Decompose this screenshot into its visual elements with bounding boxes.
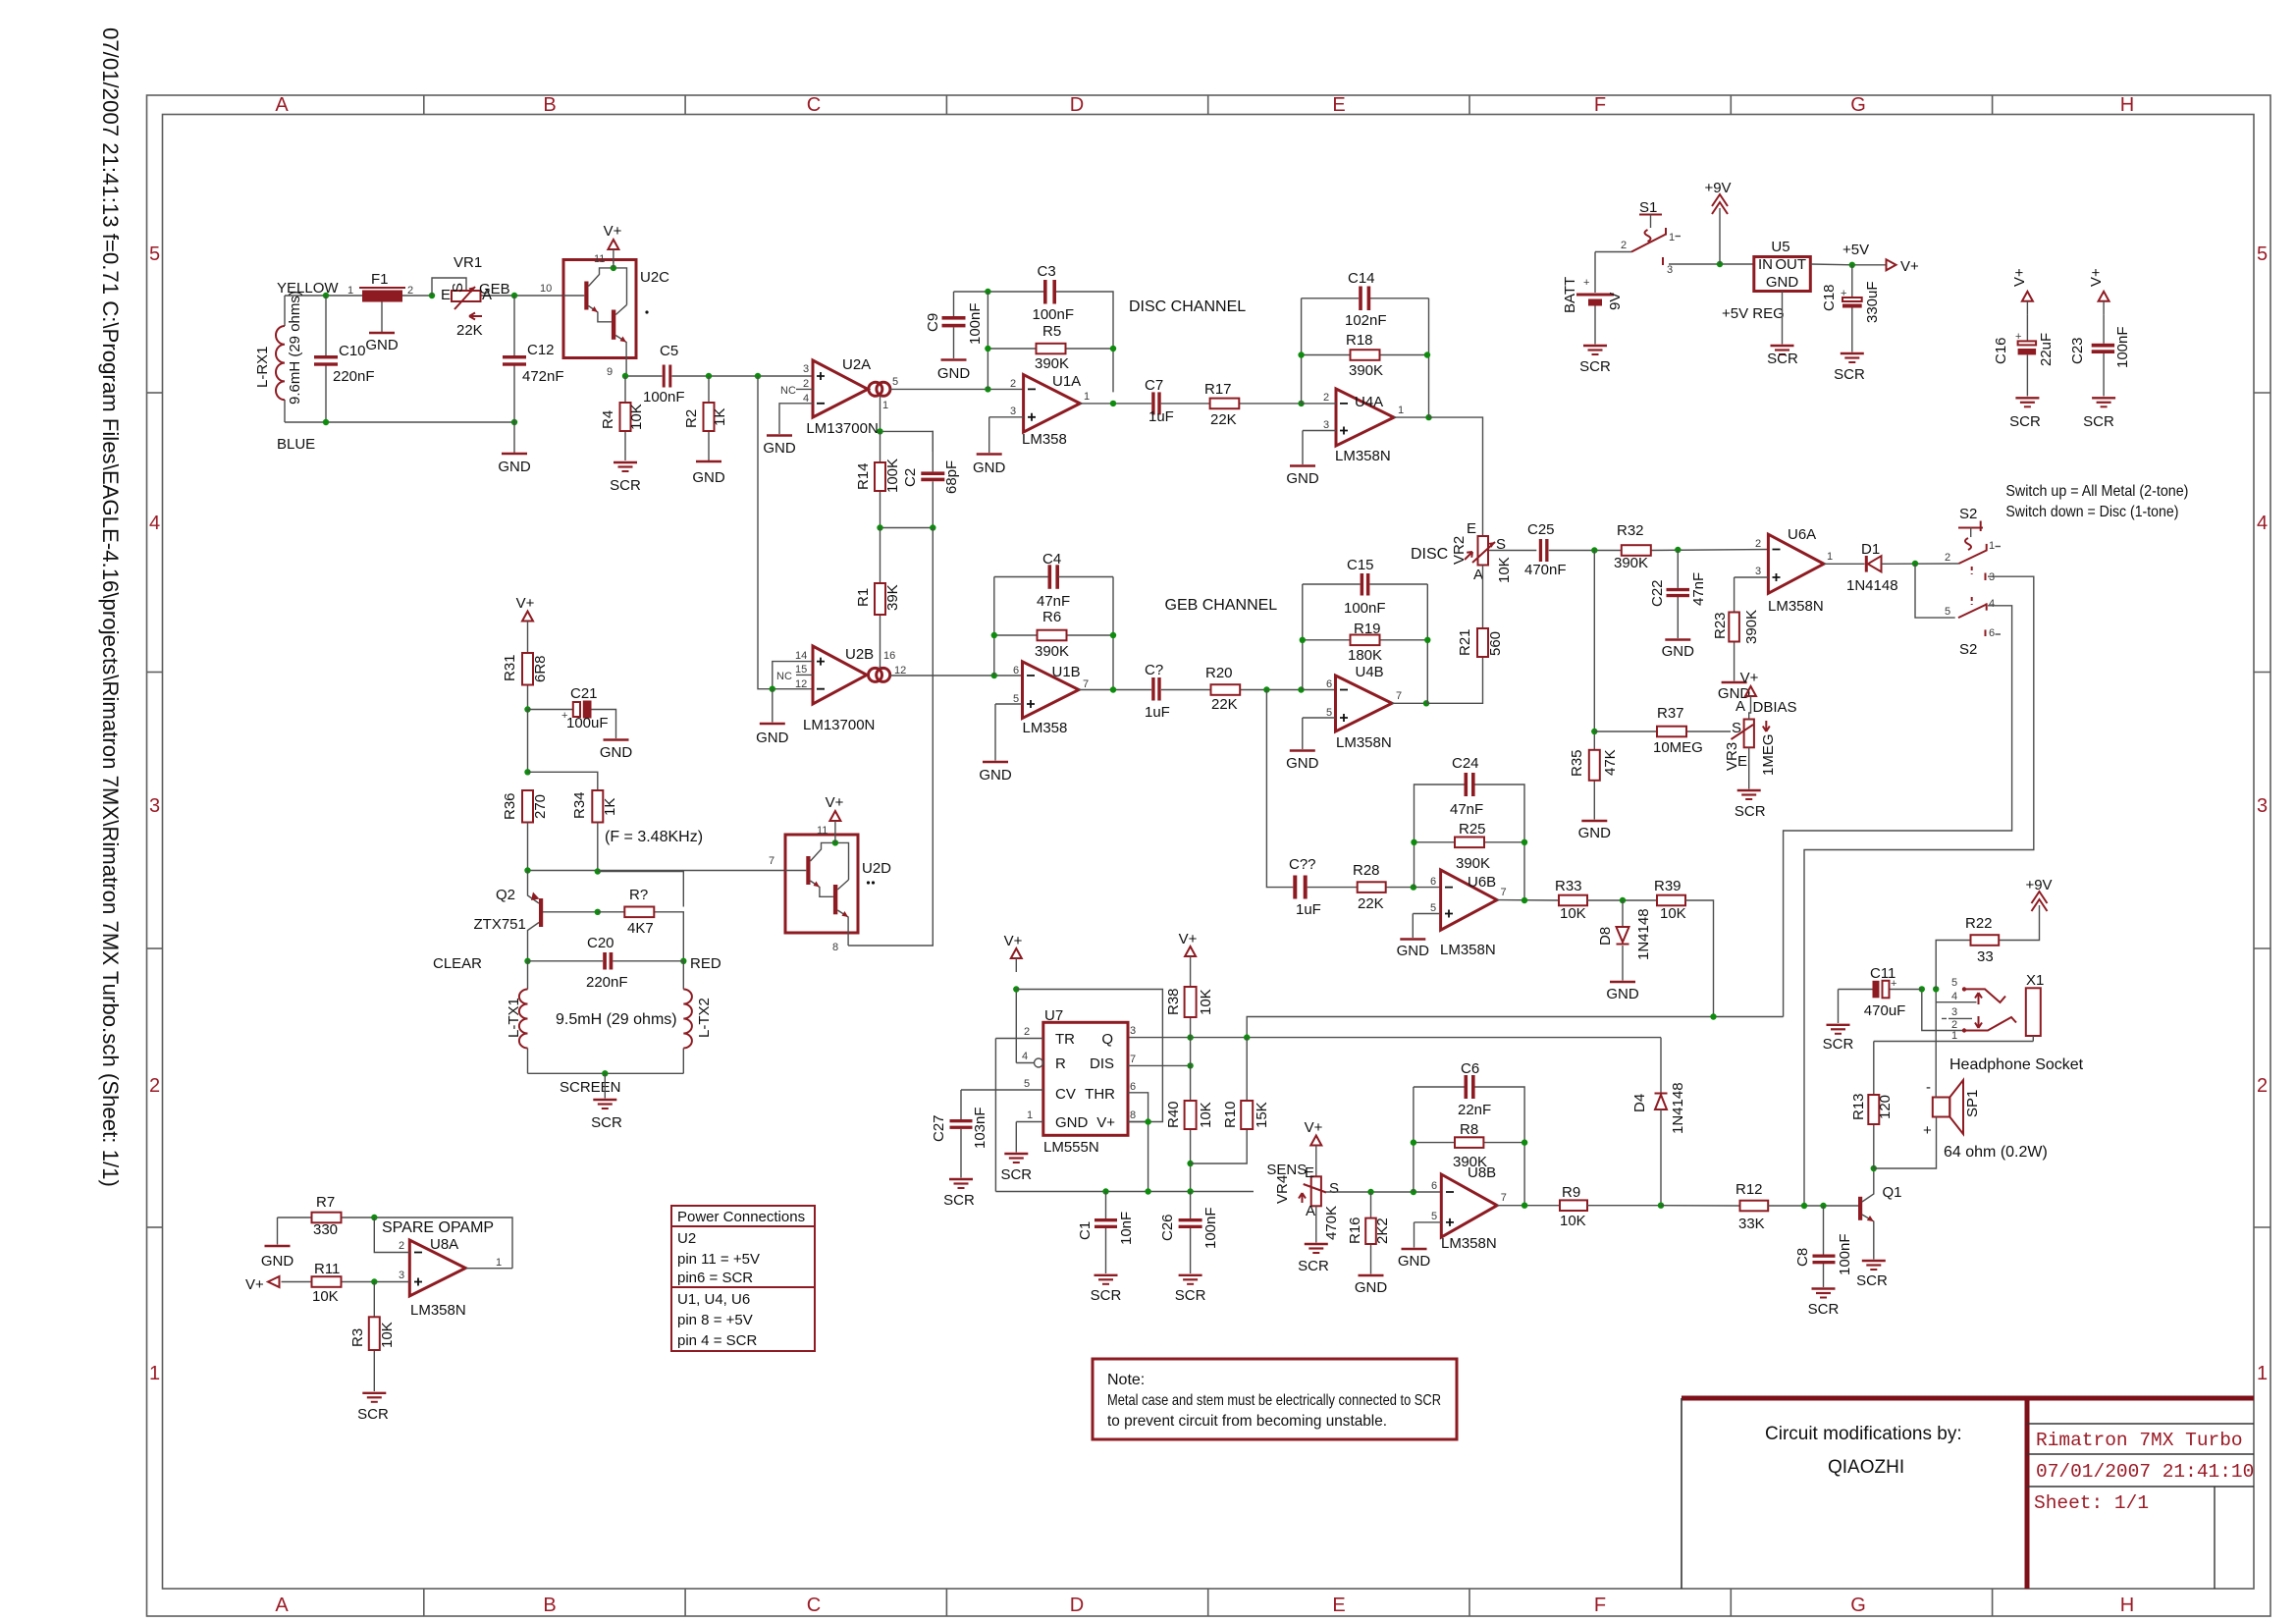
- svg-text:C18: C18: [1821, 284, 1838, 311]
- svg-text:2: 2: [1010, 378, 1016, 390]
- junction U4A out: [1425, 414, 1431, 420]
- pin 5 U7: [961, 1078, 1043, 1119]
- svg-text:R37: R37: [1657, 705, 1684, 722]
- svg-text:1: 1: [1027, 1109, 1033, 1121]
- diode D1: [1846, 541, 1898, 594]
- ground SCR under C23: [2083, 398, 2115, 430]
- regulator U5: [1754, 239, 1811, 292]
- svg-text:1: 1: [1989, 540, 1995, 552]
- svg-text:SCR: SCR: [1298, 1258, 1329, 1274]
- svg-text:Rimatron 7MX Turbo: Rimatron 7MX Turbo: [2036, 1430, 2243, 1451]
- svg-text:1N4148: 1N4148: [1670, 1082, 1686, 1134]
- svg-text:F: F: [1594, 1595, 1606, 1616]
- transistor pair U2C: [563, 260, 669, 358]
- svg-text:2: 2: [1621, 240, 1627, 251]
- capacitor C8: [1794, 1206, 1853, 1287]
- pin 1 X1: [1874, 1030, 2034, 1042]
- junction U1B out: [1110, 686, 1116, 692]
- svg-text:V+: V+: [1900, 258, 1919, 275]
- svg-text:1: 1: [347, 285, 353, 297]
- wire R14-C2 link: [881, 527, 934, 529]
- svg-text:100nF: 100nF: [1202, 1207, 1219, 1249]
- svg-text:1uF: 1uF: [1148, 408, 1174, 425]
- svg-text:A: A: [275, 1595, 289, 1616]
- capacitor C24: [1450, 755, 1483, 818]
- svg-text:9.5mH (29 ohms): 9.5mH (29 ohms): [556, 1011, 677, 1028]
- junction U2B pin14 gnd: [770, 686, 775, 692]
- op-amp U2B (OTA): [803, 646, 890, 733]
- svg-text:LM555N: LM555N: [1043, 1139, 1099, 1156]
- svg-text:GEB: GEB: [479, 281, 510, 298]
- power V+ at U2D pin 11: [817, 794, 844, 837]
- svg-text:10K: 10K: [1198, 989, 1214, 1015]
- wire YELLOW net: [285, 296, 563, 422]
- svg-text:22K: 22K: [1211, 696, 1238, 713]
- svg-text:LM13700N: LM13700N: [806, 420, 878, 437]
- svg-text:SCR: SCR: [1823, 1036, 1854, 1053]
- svg-text:U6B: U6B: [1468, 874, 1496, 891]
- ground GND under D8: [1606, 982, 1639, 1002]
- inductor L-RX1: [254, 291, 303, 405]
- svg-text:LM358N: LM358N: [1336, 734, 1392, 751]
- svg-text:1: 1: [882, 400, 888, 411]
- capacitor C25: [1524, 521, 1567, 578]
- svg-text:4: 4: [1951, 991, 1957, 1002]
- svg-text:BATT: BATT: [1562, 277, 1578, 313]
- svg-text:22uF: 22uF: [2038, 333, 2055, 366]
- svg-text:Power Connections: Power Connections: [677, 1209, 805, 1225]
- svg-text:+9V: +9V: [1704, 180, 1731, 196]
- svg-text:1N4148: 1N4148: [1635, 908, 1652, 960]
- capacitor C7: [1145, 377, 1174, 425]
- svg-text:SCR: SCR: [1856, 1272, 1888, 1289]
- svg-text:1: 1: [1084, 391, 1090, 403]
- svg-text:22K: 22K: [1358, 895, 1384, 912]
- svg-text:V+: V+: [516, 595, 535, 612]
- svg-text:R28: R28: [1353, 862, 1380, 879]
- svg-text:U2D: U2D: [862, 860, 891, 877]
- junction R5 left: [985, 346, 990, 352]
- svg-text:GND: GND: [1578, 825, 1612, 841]
- wire SP1 bottom: [1874, 1117, 1937, 1169]
- ground SCR under C1: [1091, 1275, 1122, 1304]
- svg-text:47nF: 47nF: [1690, 572, 1707, 606]
- junction R32-C22: [1675, 547, 1681, 553]
- svg-text:100nF: 100nF: [967, 302, 984, 345]
- svg-text:C22: C22: [1649, 579, 1666, 607]
- svg-text:22K: 22K: [1210, 411, 1237, 428]
- svg-text:GND: GND: [937, 365, 971, 382]
- svg-text:LM13700N: LM13700N: [803, 717, 875, 733]
- svg-text:R18: R18: [1346, 332, 1373, 349]
- op-amp U1B: [1023, 662, 1081, 736]
- svg-text:1: 1: [1951, 1030, 1957, 1042]
- junction R25 left: [1411, 839, 1416, 845]
- resistor R8: [1414, 1121, 1524, 1170]
- capacitor C11: [1839, 965, 1922, 1023]
- svg-text:07/01/2007 21:41:10: 07/01/2007 21:41:10: [2036, 1461, 2254, 1483]
- wire C6 loop: [1414, 1087, 1524, 1206]
- svg-text:4: 4: [2257, 513, 2268, 534]
- capacitor C20: [528, 935, 684, 991]
- svg-text:SPARE OPAMP: SPARE OPAMP: [382, 1219, 494, 1236]
- junction U8B pin6: [1411, 1189, 1416, 1195]
- wire SP1 top: [1935, 989, 1937, 1097]
- pin 9 U2C: [607, 358, 626, 379]
- svg-text:6: 6: [1430, 876, 1436, 888]
- svg-text:R11: R11: [314, 1261, 340, 1277]
- svg-text:GND: GND: [1355, 1279, 1388, 1296]
- ground GND under C21: [600, 740, 633, 762]
- svg-text:LM358: LM358: [1023, 720, 1068, 736]
- ground SCR under C11: [1823, 1025, 1854, 1053]
- svg-text:VR2: VR2: [1451, 536, 1468, 565]
- svg-text:LM358N: LM358N: [410, 1302, 466, 1319]
- svg-text:Note:: Note:: [1107, 1372, 1145, 1388]
- svg-text:1K: 1K: [602, 798, 618, 816]
- svg-text:4: 4: [803, 393, 809, 405]
- resistor R12: [1735, 1181, 1858, 1232]
- svg-text:7: 7: [1083, 678, 1089, 690]
- svg-text:R4: R4: [600, 410, 616, 429]
- svg-text:R7: R7: [316, 1194, 335, 1211]
- ground GND under R35: [1578, 821, 1612, 841]
- inductor L-TX2: [683, 961, 713, 1074]
- svg-text:R6: R6: [1042, 609, 1061, 625]
- svg-text:8: 8: [1130, 1109, 1136, 1121]
- headphone socket X1: [2026, 972, 2045, 1042]
- switch S2 upper half: [1945, 506, 2001, 605]
- junction Q1 collector: [1871, 1165, 1877, 1171]
- svg-text:GND: GND: [979, 767, 1012, 784]
- svg-text:7: 7: [769, 855, 774, 867]
- svg-text:V+: V+: [1096, 1114, 1115, 1131]
- svg-text:68pF: 68pF: [943, 460, 960, 494]
- svg-text:L-TX1: L-TX1: [506, 998, 522, 1038]
- svg-text:E: E: [1467, 520, 1476, 537]
- svg-text:330uF: 330uF: [1864, 281, 1881, 323]
- svg-text:Q: Q: [1101, 1031, 1113, 1048]
- resistor R7: [278, 1194, 513, 1269]
- junction VR1-E: [429, 293, 435, 298]
- switch S1: [1595, 199, 1681, 276]
- ground GND at U6B pin5: [1397, 940, 1430, 960]
- svg-text:C?: C?: [1145, 662, 1163, 678]
- svg-text:2: 2: [803, 378, 809, 390]
- svg-text:C7: C7: [1145, 377, 1163, 394]
- pin 2 U7: [995, 1026, 1042, 1192]
- svg-text:GEB CHANNEL: GEB CHANNEL: [1165, 597, 1278, 614]
- svg-text:390K: 390K: [1614, 555, 1648, 571]
- ground SCR at SCREEN: [591, 1073, 622, 1131]
- junction U6B pin6: [1411, 884, 1416, 890]
- svg-text:U2B: U2B: [845, 646, 874, 663]
- svg-text:SCR: SCR: [610, 477, 641, 494]
- battery BATT: [1562, 252, 1624, 345]
- svg-text:U6A: U6A: [1788, 526, 1816, 543]
- capacitor C18: [1821, 265, 1881, 352]
- junction C1: [1102, 1188, 1108, 1194]
- svg-text:pin 4 = SCR: pin 4 = SCR: [677, 1332, 757, 1349]
- svg-text:NC: NC: [780, 385, 796, 397]
- svg-text:F1: F1: [371, 271, 389, 288]
- svg-text:1uF: 1uF: [1145, 704, 1170, 721]
- junction C9 bottom: [985, 386, 990, 392]
- svg-text:S2: S2: [1959, 641, 1977, 658]
- resistor R17: [1161, 381, 1302, 428]
- junction U4B out: [1423, 700, 1429, 706]
- ground SCR under R4: [610, 462, 641, 494]
- svg-text:+: +: [1583, 277, 1589, 289]
- capacitor C15: [1344, 557, 1386, 617]
- op-amp U1A: [1022, 373, 1081, 448]
- junction C2 bottom: [930, 524, 935, 530]
- svg-text:3: 3: [149, 795, 160, 817]
- ground GND under C22: [1662, 640, 1695, 661]
- capacitor C10: [314, 296, 375, 422]
- resistor R5: [988, 323, 1113, 372]
- svg-text:C9: C9: [925, 313, 941, 332]
- wire geb2 loop: [1303, 584, 1428, 703]
- svg-text:V+: V+: [2088, 268, 2105, 287]
- svg-text:pin6 = SCR: pin6 = SCR: [677, 1270, 753, 1286]
- svg-text:5: 5: [149, 243, 160, 265]
- wire disc2 loop: [1302, 298, 1429, 417]
- resistor R16: [1347, 1192, 1391, 1274]
- wire C25 to R32: [1549, 550, 1769, 551]
- svg-text:RED: RED: [690, 955, 721, 972]
- svg-text:R14: R14: [855, 462, 872, 490]
- wire TX bottom: [528, 1072, 684, 1074]
- ground GND under C9: [937, 360, 971, 383]
- svg-text:390K: 390K: [1456, 855, 1490, 872]
- svg-text:R16: R16: [1347, 1217, 1363, 1244]
- svg-text:B: B: [543, 94, 556, 116]
- svg-text:10K: 10K: [1560, 1213, 1586, 1229]
- svg-text:2: 2: [1755, 538, 1761, 550]
- pin 7 U1B output: [1079, 678, 1151, 690]
- svg-text:R?: R?: [629, 887, 648, 903]
- junction R39-Qnet: [1710, 1013, 1716, 1019]
- svg-text:+: +: [1841, 288, 1846, 299]
- diode D8: [1597, 900, 1652, 981]
- svg-text:4K7: 4K7: [627, 920, 654, 937]
- svg-text:C8: C8: [1794, 1248, 1811, 1267]
- svg-text:5: 5: [2257, 243, 2268, 265]
- svg-text:07/01/2007 21:41:13 f=0.71 C: 07/01/2007 21:41:13 f=0.71 C:\Program Fi…: [98, 27, 123, 1187]
- svg-text:7: 7: [1130, 1054, 1136, 1065]
- ground GND at U1B pin5: [979, 762, 1012, 784]
- power V+ at VR3: [1740, 670, 1759, 720]
- svg-text:DISC: DISC: [1411, 546, 1448, 563]
- resistor R3: [349, 1282, 396, 1392]
- svg-text:1: 1: [1669, 232, 1675, 243]
- ground GND at U8B pin5: [1398, 1249, 1431, 1270]
- capacitor C23: [2069, 315, 2131, 397]
- junction R5 right: [1110, 346, 1116, 352]
- svg-text:5: 5: [1326, 707, 1332, 719]
- capacitor C5: [643, 343, 685, 406]
- resistor R21: [1457, 566, 1504, 658]
- junction R10 column: [1244, 1034, 1250, 1040]
- svg-text:100nF: 100nF: [643, 389, 685, 406]
- svg-text:Q2: Q2: [496, 887, 515, 903]
- svg-text:4: 4: [1989, 598, 1995, 610]
- ground SCR at U7 pin1: [1000, 1154, 1032, 1183]
- power +9V at R22: [2025, 877, 2052, 923]
- svg-text:3: 3: [1951, 1006, 1957, 1018]
- resistor R28: [1308, 862, 1441, 912]
- resistor R?: [598, 872, 684, 961]
- svg-text:390K: 390K: [1035, 643, 1069, 660]
- capacitor C2: [902, 431, 960, 528]
- wire U4B out to R21: [1426, 657, 1483, 703]
- ground GND at U2B: [756, 689, 789, 746]
- svg-text:V+: V+: [1305, 1119, 1323, 1136]
- ground SCR under VR4: [1298, 1206, 1329, 1274]
- svg-text:2: 2: [399, 1240, 404, 1252]
- svg-text:C27: C27: [931, 1114, 947, 1142]
- capacitor C3: [1033, 263, 1075, 323]
- svg-text:GND: GND: [973, 460, 1006, 476]
- wire geb feedback loop: [994, 577, 1113, 690]
- svg-text:11: 11: [594, 253, 605, 265]
- svg-text:U2A: U2A: [842, 356, 871, 373]
- wire BLUE net: [285, 421, 514, 423]
- svg-text:R1: R1: [855, 588, 872, 607]
- svg-text:12: 12: [894, 665, 906, 676]
- svg-text:470nF: 470nF: [1524, 562, 1567, 578]
- svg-text:6: 6: [1431, 1180, 1437, 1192]
- svg-text:SCR: SCR: [1091, 1287, 1122, 1304]
- trimmer VR3: [1724, 698, 1777, 776]
- op-amp U4A: [1335, 389, 1394, 464]
- svg-text:560: 560: [1487, 631, 1504, 656]
- op-amp U2A (OTA): [806, 356, 890, 437]
- wire to R34: [528, 772, 598, 790]
- svg-text:R19: R19: [1354, 621, 1381, 637]
- junction R22 drop: [1933, 986, 1939, 992]
- ground SCR under R3: [357, 1393, 389, 1423]
- power +9V at S1: [1704, 180, 1731, 264]
- svg-text:180K: 180K: [1348, 647, 1382, 664]
- svg-text:33K: 33K: [1738, 1216, 1765, 1232]
- resistor R13: [1850, 1042, 1894, 1169]
- svg-text:C3: C3: [1038, 263, 1056, 280]
- junction C26: [1187, 1188, 1193, 1194]
- junction pin8: [1145, 1118, 1150, 1124]
- resistor R22: [1936, 915, 2039, 989]
- svg-text:220nF: 220nF: [333, 368, 375, 385]
- junction U2B feed: [755, 373, 761, 379]
- svg-text:V+: V+: [1004, 933, 1023, 949]
- trimmer VR1: [432, 254, 492, 339]
- svg-text:C24: C24: [1452, 755, 1479, 772]
- junction S2 common: [1912, 561, 1918, 567]
- svg-text:SP1: SP1: [1964, 1090, 1981, 1117]
- svg-text:102nF: 102nF: [1345, 312, 1387, 329]
- junction R36 top: [524, 769, 530, 775]
- svg-text:14: 14: [795, 650, 807, 662]
- junction BLUE-C12: [511, 419, 517, 425]
- pin 4 X1: [1936, 991, 1976, 1002]
- svg-text:2: 2: [1945, 552, 1950, 564]
- power V+ at U2C pin 11: [594, 223, 622, 265]
- resistor R36: [502, 790, 549, 871]
- junction D8 top: [1620, 897, 1626, 903]
- ground SCR under C16: [2009, 398, 2041, 430]
- svg-text:C25: C25: [1527, 521, 1555, 538]
- svg-text:5: 5: [1013, 693, 1019, 705]
- pin 7 U6B output: [1497, 887, 1559, 900]
- svg-text:R22: R22: [1965, 915, 1993, 932]
- pin 8 U2D: [832, 933, 848, 953]
- resistor R20: [1161, 665, 1336, 713]
- svg-text:U2: U2: [677, 1230, 696, 1247]
- svg-text:9: 9: [607, 366, 613, 378]
- svg-text:1N4148: 1N4148: [1846, 577, 1898, 594]
- svg-text:H: H: [2120, 1595, 2134, 1616]
- wire R20 branch down to C??: [1266, 690, 1293, 888]
- svg-text:+: +: [1923, 1122, 1932, 1139]
- svg-text:3: 3: [399, 1270, 404, 1281]
- junction C9 top: [985, 289, 990, 295]
- junction U8B out: [1522, 1203, 1527, 1209]
- junction U1A out: [1110, 401, 1116, 406]
- svg-text:LM358N: LM358N: [1441, 1235, 1497, 1252]
- svg-text:C??: C??: [1289, 856, 1316, 873]
- svg-text:10K: 10K: [628, 404, 645, 430]
- svg-text:Switch up = All Metal (2-tone): Switch up = All Metal (2-tone): [2005, 483, 2188, 500]
- svg-text:C10: C10: [339, 343, 366, 359]
- svg-text:C16: C16: [1993, 337, 2009, 364]
- op-amp U8B: [1441, 1164, 1497, 1252]
- svg-text:9V: 9V: [1607, 293, 1624, 310]
- power V+ at R38: [1179, 931, 1198, 970]
- capacitor C??: [1289, 856, 1321, 918]
- svg-text:VR3: VR3: [1724, 742, 1740, 771]
- svg-text:C14: C14: [1348, 270, 1375, 287]
- svg-text:390K: 390K: [1035, 355, 1069, 372]
- svg-text:GND: GND: [1055, 1114, 1089, 1131]
- svg-text:472nF: 472nF: [522, 368, 564, 385]
- svg-text:A: A: [1735, 698, 1745, 715]
- resistor R37: [1594, 705, 1731, 756]
- svg-text:R2: R2: [683, 409, 700, 428]
- svg-text:100nF: 100nF: [1033, 306, 1075, 323]
- svg-text:10MEG: 10MEG: [1653, 739, 1703, 756]
- svg-text:SCR: SCR: [2009, 413, 2041, 430]
- svg-text:Q1: Q1: [1883, 1184, 1902, 1201]
- pin 5 U1B: [995, 693, 1023, 761]
- capacitor C16: [1993, 315, 2055, 397]
- resistor R11: [312, 1261, 342, 1305]
- svg-text:SCR: SCR: [943, 1192, 975, 1209]
- inductor L-TX1: [506, 961, 528, 1074]
- svg-text:SCREEN: SCREEN: [560, 1079, 621, 1096]
- switch lever X1 bottom: [1966, 1017, 2016, 1031]
- wire U4A out to VR2: [1429, 417, 1483, 536]
- svg-text:U4A: U4A: [1355, 394, 1383, 410]
- wire S2 pin4 to Q line: [1784, 606, 2012, 1017]
- svg-text:5: 5: [1945, 606, 1950, 618]
- svg-text:R13: R13: [1850, 1093, 1867, 1120]
- svg-text:pin 11 = +5V: pin 11 = +5V: [677, 1251, 760, 1268]
- svg-text:V+: V+: [604, 223, 622, 240]
- svg-text:103nF: 103nF: [972, 1107, 988, 1149]
- svg-text:+: +: [2015, 331, 2021, 343]
- junction R7 right: [371, 1215, 377, 1220]
